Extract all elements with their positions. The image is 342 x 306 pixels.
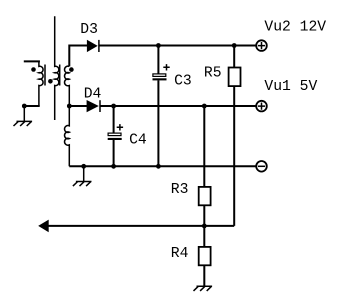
svg-text:R4: R4 — [171, 246, 189, 262]
transformer secondary winding W4 (bottom) — [65, 106, 70, 166]
node: junction 12V rail / R5 — [232, 43, 237, 48]
wire bottom common rail from W4 to minus terminal — [69, 165, 255, 167]
capacitor C4 (polarized) — [108, 106, 122, 166]
svg-text:R5: R5 — [204, 66, 222, 82]
wire D4 anode from center tap — [69, 105, 87, 107]
diode D3 — [87, 40, 99, 52]
transformer core bar 2 — [59, 65, 61, 86]
svg-text:Vu2 12V: Vu2 12V — [264, 19, 326, 35]
svg-text:Vu1 5V: Vu1 5V — [264, 79, 317, 95]
svg-text:R3: R3 — [171, 182, 189, 198]
phase dot W3 — [69, 67, 74, 72]
diode D4 — [87, 100, 100, 112]
terminal Vu2 plus — [256, 40, 267, 51]
arrow head pointing left on feedback line — [38, 220, 49, 233]
node: junction 5V rail / R3 — [202, 104, 207, 109]
ground symbol G3 (under R4) — [194, 265, 213, 291]
node: junction primary bottom / ground — [22, 104, 27, 109]
svg-text:C4: C4 — [129, 132, 147, 148]
node: junction common rail / ground — [81, 164, 86, 169]
transformer T1 primary winding W1 with top stub wire and bottom wire — [24, 61, 43, 106]
plus sign C3 — [163, 64, 169, 70]
wire 12V rail from D3 cathode to Vu2 terminal — [99, 45, 256, 47]
node: center tap junction W3/W4/D4 — [67, 104, 72, 109]
transformer core bar 1 — [44, 65, 46, 86]
node: junction common rail / C4 — [111, 164, 116, 169]
resistor R4 — [199, 247, 211, 286]
capacitor C3 (polarized) — [153, 46, 167, 167]
ground symbol G2 (common rail) — [73, 166, 92, 186]
plus sign C4 — [117, 124, 123, 130]
node: junction D4 out / C4 — [111, 104, 116, 109]
node: junction feedback / R3 R4 — [202, 224, 207, 229]
node: junction 12V rail / C3 — [156, 43, 161, 48]
svg-text:C3: C3 — [174, 73, 192, 89]
phase dot primary W1 — [31, 67, 36, 72]
terminal Vu1 plus — [256, 101, 267, 112]
svg-text:D4: D4 — [84, 86, 102, 102]
terminal minus — [256, 161, 267, 172]
wire from W3 top to D3 anode — [69, 46, 87, 67]
wire feedback line from R5 bottom corner to arrow — [48, 225, 234, 227]
phase dot W2 — [48, 79, 53, 84]
ground symbol G1 (primary) — [13, 106, 32, 126]
node: junction common rail / C3 — [156, 164, 161, 169]
wire 5V rail from D4 cathode to Vu1 terminal — [100, 105, 256, 107]
resistor R5 — [229, 46, 241, 226]
transformer auxiliary winding W2 with long vertical leads — [55, 16, 59, 120]
svg-text:D3: D3 — [80, 22, 98, 38]
transformer secondary winding W3 (top) — [65, 66, 70, 106]
resistor R3 — [199, 106, 211, 247]
